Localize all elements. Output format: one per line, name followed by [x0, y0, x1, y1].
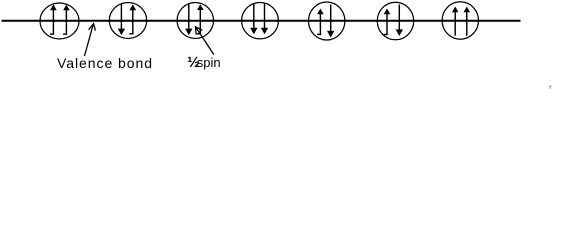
spin up arrow 1b [63, 4, 70, 34]
spin up arrow 5a [317, 9, 324, 35]
site circle 6 [377, 2, 413, 40]
site circle 7 [442, 2, 478, 39]
spin up arrow 2b [129, 4, 136, 34]
spin up arrow 7a [452, 7, 459, 36]
spin down arrow 5b [327, 5, 334, 38]
spin down arrow 6b [396, 5, 403, 37]
valence bond pointer arrow [85, 24, 96, 56]
spin down arrow 4a [250, 3, 257, 34]
site circle 3 [177, 3, 213, 39]
site circle 2 [109, 3, 146, 39]
spin down arrow 3a [185, 4, 192, 36]
site circle 4 [242, 3, 279, 39]
half-spin pointer arrow [196, 27, 214, 55]
site circle 5 [309, 2, 345, 40]
chain line [2, 20, 521, 22]
site circle 1 [40, 3, 79, 39]
spin down arrow 2a [118, 4, 125, 36]
stray gray speck [550, 86, 552, 89]
spin up arrow 6a [384, 9, 391, 36]
svg-text:spin: spin [197, 55, 221, 70]
spin up arrow 1a [50, 4, 57, 34]
svg-text:Valence bond: Valence bond [57, 55, 153, 71]
spin up arrow 3b [197, 4, 204, 34]
spin down arrow 4b [261, 3, 268, 34]
spin up arrow 7b [464, 7, 471, 36]
